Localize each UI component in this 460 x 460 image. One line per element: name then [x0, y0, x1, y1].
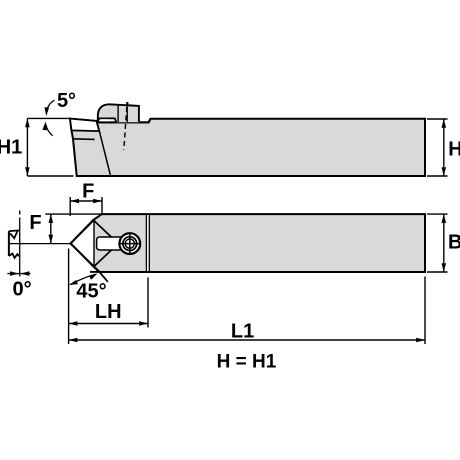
svg-text:H = H1: H = H1: [217, 352, 277, 373]
top view: clamp screw head circles: [119, 233, 140, 254]
F horizontal dimension line with arrows: [70, 200, 102, 202]
F horizontal dimension: extension lines: [69, 197, 71, 216]
L1 dimension: right extension line: [424, 277, 426, 345]
H dimension extension lines: [427, 118, 448, 120]
B dimension: extension lines: [427, 213, 448, 215]
H dimension line with arrows: [443, 119, 445, 176]
LH dimension: extension lines: [68, 249, 70, 345]
B dimension line with arrows: [443, 214, 445, 272]
0 degree dimension: [7, 273, 30, 275]
svg-text:H1: H1: [0, 137, 22, 159]
top view: insert right edges: [94, 221, 111, 237]
side view: clamp screw hole lines: [117, 105, 119, 122]
top view: 45 deg edge extension beyond corner: [99, 272, 107, 282]
H1 dimension line with arrows: [26, 118, 28, 176]
side view: shim bottom line: [73, 138, 95, 141]
side view: insert (white trapezoid): [70, 119, 99, 132]
45 degree annotation arc with arrows: [71, 274, 96, 284]
svg-text:45°: 45°: [76, 281, 106, 303]
svg-text:5°: 5°: [57, 90, 76, 112]
svg-text:F: F: [29, 212, 41, 234]
top view: screw crosshair: [119, 243, 140, 245]
svg-text:B: B: [448, 232, 460, 254]
svg-text:0°: 0°: [13, 279, 32, 301]
svg-text:L1: L1: [231, 321, 254, 343]
svg-text:LH: LH: [95, 301, 122, 323]
top view: clamp lever arm (white capsule): [97, 237, 129, 250]
top view: bottom edge extension left of corner: [90, 271, 100, 273]
5 degree arc above line with arrowhead: [46, 100, 54, 113]
side view: tool holder body (gray): [70, 119, 425, 176]
insert profile symbol (far left): [8, 231, 10, 256]
side view: head front edge line: [97, 121, 111, 176]
top view: head/shank seam (double line with white gap): [146, 215, 149, 271]
side view: screw stub above clamp: [126, 102, 128, 106]
top view: tool holder body with diamond head (gray): [71, 214, 425, 272]
symbol centerline (vertical): [19, 211, 21, 215]
svg-text:H: H: [448, 139, 460, 161]
side view: screw axis (dashed): [124, 107, 127, 150]
L1 dimension line with arrows: [69, 339, 425, 341]
svg-text:F: F: [82, 180, 94, 202]
side view: body top edge under clamp + step: [97, 119, 151, 123]
top view: head pocket thick edges: [71, 220, 94, 244]
5 degree arc below line with arrowhead: [46, 124, 53, 136]
H1 dimension extension lines: [27, 117, 69, 119]
LH dimension line with arrows: [69, 323, 148, 325]
top view: insert (white triangle half-diamond): [71, 220, 94, 267]
F vertical dimension line with arrows: [50, 214, 52, 244]
side view: gap sliver under clamp nose (white): [102, 119, 110, 121]
side view: clamp (gray, rounded top-left): [98, 104, 139, 122]
side view: clamp nose bottom edge: [98, 118, 117, 122]
tip centerline: [9, 243, 71, 245]
F vertical dimension: extension line (top edge extended left): [45, 213, 102, 215]
